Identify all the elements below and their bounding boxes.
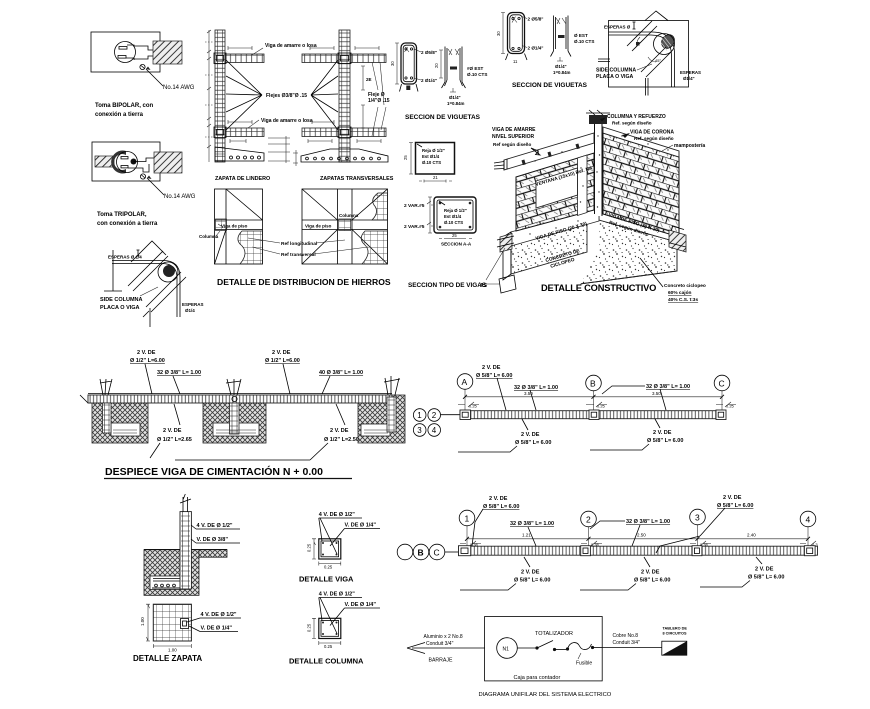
detalle constructivo: left wall bricks + window xyxy=(516,153,594,231)
svg-text:40% C.S. t:3s: 40% C.S. t:3s xyxy=(668,297,698,303)
svg-text:1.00: 1.00 xyxy=(168,648,177,653)
svg-text:TOTALIZADOR: TOTALIZADOR xyxy=(535,631,573,637)
svg-text:1=0.84m: 1=0.84m xyxy=(553,70,571,75)
svg-text:Viga de amarre o losa: Viga de amarre o losa xyxy=(261,118,313,124)
svg-text:0.25: 0.25 xyxy=(726,404,735,409)
svg-text:SECCION TIPO DE VIGAS: SECCION TIPO DE VIGAS xyxy=(408,282,487,289)
svg-text:Caja para contador: Caja para contador xyxy=(514,675,561,681)
svg-text:No.14 AWG: No.14 AWG xyxy=(164,194,196,200)
outlet bipolar detail xyxy=(91,32,195,118)
svg-text:Toma BIPOLAR, con: Toma BIPOLAR, con xyxy=(95,103,154,109)
svg-text:1.00: 1.00 xyxy=(140,617,145,626)
svg-text:No.14 AWG: No.14 AWG xyxy=(163,85,195,91)
svg-text:V. DE Ø 3/8": V. DE Ø 3/8" xyxy=(197,537,229,543)
svg-text:mampostería: mampostería xyxy=(674,143,705,149)
svg-text:30: 30 xyxy=(496,31,501,36)
svg-text:Ø 5/8" L= 6.00: Ø 5/8" L= 6.00 xyxy=(476,373,512,379)
wire to tablero xyxy=(602,633,662,648)
svg-text:SIDE COLUMNA: SIDE COLUMNA xyxy=(100,297,143,303)
svg-text:BARRAJE: BARRAJE xyxy=(429,658,453,664)
svg-text:Ø.10 CTS: Ø.10 CTS xyxy=(574,39,594,44)
svg-text:Columna: Columna xyxy=(339,213,359,218)
svg-text:1/4"Ø .15: 1/4"Ø .15 xyxy=(368,98,390,104)
svg-text:32 Ø 3/8" L= 1.00: 32 Ø 3/8" L= 1.00 xyxy=(157,370,201,376)
meter N1 xyxy=(497,638,518,659)
svg-text:40 Ø 3/8" L= 1.00: 40 Ø 3/8" L= 1.00 xyxy=(319,370,363,376)
viga de corona strip xyxy=(603,127,679,157)
svg-text:Conduit 3/4": Conduit 3/4" xyxy=(613,640,641,646)
svg-text:DETALLE CONSTRUCTIVO: DETALLE CONSTRUCTIVO xyxy=(541,283,656,293)
svg-text:Ø 5/8" L= 6.00: Ø 5/8" L= 6.00 xyxy=(647,438,683,444)
svg-text:PLACA O VIGA: PLACA O VIGA xyxy=(100,305,140,311)
svg-text:Toma TRIPOLAR,: Toma TRIPOLAR, xyxy=(97,212,147,218)
svg-text:2 VAR.#5: 2 VAR.#5 xyxy=(404,224,425,230)
svg-text:Columna: Columna xyxy=(199,234,219,239)
svg-text:ESPERAS: ESPERAS xyxy=(680,70,701,75)
svg-text:DETALLE VIGA: DETALLE VIGA xyxy=(299,575,354,584)
svg-text:2 V. DE: 2 V. DE xyxy=(482,365,501,371)
svg-text:1: 1 xyxy=(465,513,470,523)
despiece viga: right pedestal xyxy=(361,376,400,436)
right dims xyxy=(361,66,365,128)
svg-text:2 V. DE: 2 V. DE xyxy=(521,432,540,438)
svg-text:con conexión a tierra: con conexión a tierra xyxy=(97,221,158,227)
despiece viga: labels xyxy=(130,350,363,460)
svg-text:2 V. DE: 2 V. DE xyxy=(137,350,156,356)
footing xyxy=(215,147,264,161)
bottom beam both sides xyxy=(302,128,339,137)
svg-text:Concreto ciclopeo: Concreto ciclopeo xyxy=(664,283,706,289)
svg-text:2 V. DE: 2 V. DE xyxy=(653,430,672,436)
svg-text:Cobre No.8: Cobre No.8 xyxy=(613,633,639,639)
svg-text:2: 2 xyxy=(586,514,591,524)
despiece viga: circled numbers 1-4 xyxy=(413,409,460,437)
svg-text:1: 1 xyxy=(417,411,422,420)
svg-text:SECCION DE VIGUETAS: SECCION DE VIGUETAS xyxy=(405,114,481,121)
svg-text:0.25: 0.25 xyxy=(324,565,333,570)
svg-text:Ø1/4: Ø1/4 xyxy=(185,308,195,313)
svg-text:DETALLE DE DISTRIBUCION DE HIE: DETALLE DE DISTRIBUCION DE HIERROS xyxy=(217,277,391,287)
wire xyxy=(555,649,567,651)
svg-text:Fusible: Fusible xyxy=(576,661,592,667)
svg-text:2 V. DE: 2 V. DE xyxy=(723,495,742,501)
svg-text:ZAPATAS TRANSVERSALES: ZAPATAS TRANSVERSALES xyxy=(320,176,394,182)
svg-text:Ref transversal: Ref transversal xyxy=(281,252,316,258)
open stirrup section xyxy=(445,47,462,83)
svg-text:30: 30 xyxy=(390,61,395,66)
detalle constructivo: right end stub xyxy=(669,226,686,252)
svg-text:VIGA DE CORONA: VIGA DE CORONA xyxy=(630,130,674,136)
outlet tripolar detail xyxy=(92,142,196,227)
despiece viga: pedestal 2 xyxy=(213,379,259,436)
svg-text:0.25: 0.25 xyxy=(597,404,606,409)
svg-text:B: B xyxy=(418,548,424,558)
svg-text:11: 11 xyxy=(513,59,518,64)
open stirrup xyxy=(554,16,569,52)
svg-text:V. DE Ø 1/4": V. DE Ø 1/4" xyxy=(201,626,233,632)
fan lines + middle labels xyxy=(226,43,338,130)
top beam both sides xyxy=(302,54,339,63)
junction detail: zapatas transversales xyxy=(293,30,394,182)
svg-text:VIGA DE AMARRE: VIGA DE AMARRE xyxy=(492,127,536,133)
svg-text:SECCION DE VIGUETAS: SECCION DE VIGUETAS xyxy=(512,82,588,89)
beam plan A-B-C xyxy=(457,365,736,452)
fuse fusible xyxy=(566,643,594,667)
despiece viga de cimentacion: soil blocks xyxy=(80,395,405,443)
svg-text:ESPERAS Ø: ESPERAS Ø xyxy=(604,25,631,30)
svg-text:2 V. DE: 2 V. DE xyxy=(272,350,291,356)
svg-text:Ref longitudinal: Ref longitudinal xyxy=(281,241,317,247)
svg-text:20: 20 xyxy=(434,63,439,68)
svg-text:Flejes Ø3/8"Ø .15: Flejes Ø3/8"Ø .15 xyxy=(266,93,307,99)
svg-text:Ø.10 CTS: Ø.10 CTS xyxy=(422,160,441,165)
tablero de 8 circuitos panel xyxy=(662,627,688,656)
detalle constructivo: viga de amarre beam xyxy=(494,133,594,170)
svg-text:4 V. DE Ø 1/2": 4 V. DE Ø 1/2" xyxy=(201,612,237,618)
svg-text:Ø 1/2" L=6.00: Ø 1/2" L=6.00 xyxy=(130,358,165,364)
detalle zapata: plan grid xyxy=(133,604,241,663)
viguetas section group 1 xyxy=(390,43,487,121)
svg-text:conexión a tierra: conexión a tierra xyxy=(95,112,144,118)
svg-text:Ø 5/8" L= 6.00: Ø 5/8" L= 6.00 xyxy=(717,503,753,509)
svg-text:PLACA O VIGA: PLACA O VIGA xyxy=(596,74,634,80)
svg-text:Ref. según diseño: Ref. según diseño xyxy=(612,121,652,126)
svg-text:ESPERAS: ESPERAS xyxy=(182,302,204,307)
beam section square 2 (seccion A-A) xyxy=(404,197,476,247)
svg-text:Est Ø1/4: Est Ø1/4 xyxy=(422,154,440,159)
svg-text:1.21: 1.21 xyxy=(522,533,531,538)
detalle constructivo: labels xyxy=(480,114,706,303)
svg-text:60% cajón: 60% cajón xyxy=(668,290,692,296)
svg-text:32 Ø 3/8" L= 1.00: 32 Ø 3/8" L= 1.00 xyxy=(626,519,670,525)
detalle columna xyxy=(289,592,380,666)
svg-text:0.25: 0.25 xyxy=(307,543,312,552)
svg-text:V. DE Ø 1/4": V. DE Ø 1/4" xyxy=(345,523,377,529)
svg-text:C: C xyxy=(719,378,725,388)
svg-text:Ø.10 CTS: Ø.10 CTS xyxy=(444,220,463,225)
svg-text:Ø.10 CTS: Ø.10 CTS xyxy=(467,72,487,77)
svg-text:Ref según diseño: Ref según diseño xyxy=(493,142,531,147)
corner rebar detail left (side columna placa o viga) xyxy=(100,241,204,327)
svg-text:0.25: 0.25 xyxy=(469,404,478,409)
svg-text:A: A xyxy=(462,377,468,387)
junction detail: zapata de lindero xyxy=(205,30,290,182)
detalle constructivo: left footing ciclopeo face xyxy=(499,221,599,293)
svg-text:Ø 5/8" L= 6.00: Ø 5/8" L= 6.00 xyxy=(483,504,519,510)
svg-text:2 V. DE: 2 V. DE xyxy=(521,570,540,576)
svg-text:3: 3 xyxy=(695,512,700,522)
svg-text:2 V. DE: 2 V. DE xyxy=(489,496,508,502)
svg-text:Viga de amarre o losa: Viga de amarre o losa xyxy=(265,43,317,49)
detalle constructivo: small left stub xyxy=(497,234,514,253)
detalle constructivo: right wall bricks xyxy=(603,127,679,237)
svg-text:B: B xyxy=(590,378,596,388)
svg-text:Reja Ø 1/2": Reja Ø 1/2" xyxy=(444,208,467,213)
svg-text:2 V. DE: 2 V. DE xyxy=(330,428,349,434)
svg-text:Ref. según diseño: Ref. según diseño xyxy=(634,136,674,141)
detalle constructivo: corner column xyxy=(586,110,610,216)
switch totalizador xyxy=(535,641,556,652)
svg-text:Ø1/4": Ø1/4" xyxy=(555,64,567,69)
svg-text:Ø1/4": Ø1/4" xyxy=(683,76,695,81)
bottom beam xyxy=(225,128,264,137)
svg-text:32 Ø 3/8" L= 1.00: 32 Ø 3/8" L= 1.00 xyxy=(646,384,690,390)
svg-text:2 V. DE: 2 V. DE xyxy=(163,428,182,434)
svg-text:Ø 1/2" L=6.00: Ø 1/2" L=6.00 xyxy=(265,358,300,364)
svg-text:Ø 5/8" L= 6.00: Ø 5/8" L= 6.00 xyxy=(515,440,551,446)
detalle constructivo: right footing face xyxy=(580,220,677,284)
svg-text:3: 3 xyxy=(417,426,422,435)
viguetas section group 2 xyxy=(496,13,594,90)
svg-text:4 V. DE Ø 1/2": 4 V. DE Ø 1/2" xyxy=(197,523,233,529)
despiece viga: beam strip xyxy=(88,394,392,403)
svg-text:2 Ø1/4": 2 Ø1/4" xyxy=(528,46,544,51)
svg-text:Viga de piso: Viga de piso xyxy=(305,224,332,229)
svg-text:45°: 45° xyxy=(655,58,661,63)
rebar distribution plan: zapata de lindero xyxy=(199,189,263,264)
beam section square 1 xyxy=(403,143,455,183)
svg-text:2: 2 xyxy=(432,411,437,420)
electrical single-line diagram: caja para contador box xyxy=(485,617,603,682)
svg-text:2E: 2E xyxy=(366,77,372,82)
svg-text:0.25: 0.25 xyxy=(307,623,312,632)
rebar distribution plan: zapatas transversales xyxy=(302,189,388,264)
top beam xyxy=(225,54,264,63)
svg-text:4: 4 xyxy=(806,514,811,524)
svg-text:Viga de piso: Viga de piso xyxy=(221,224,248,229)
svg-text:Ø 5/8" L= 6.00: Ø 5/8" L= 6.00 xyxy=(748,575,784,581)
svg-text:32 Ø 3/8" L= 1.00: 32 Ø 3/8" L= 1.00 xyxy=(510,521,554,527)
svg-text:Ø 1/2" L=2.65: Ø 1/2" L=2.65 xyxy=(157,437,192,443)
svg-text:4 V. DE Ø 1/2": 4 V. DE Ø 1/2" xyxy=(319,592,355,598)
svg-text:4: 4 xyxy=(432,426,437,435)
detalle zapata: section xyxy=(144,494,240,595)
svg-text:DESPIECE VIGA DE CIMENTACIÓN N: DESPIECE VIGA DE CIMENTACIÓN N + 0.00 xyxy=(105,465,323,478)
svg-text:21: 21 xyxy=(433,175,438,180)
svg-text:N1: N1 xyxy=(503,647,510,653)
detalle constructivo: right viga de piso band xyxy=(599,206,677,242)
svg-text:DETALLE ZAPATA: DETALLE ZAPATA xyxy=(133,654,202,663)
svg-text:Ø 5/8" L= 6.00: Ø 5/8" L= 6.00 xyxy=(514,578,550,584)
svg-text:1=0.84m: 1=0.84m xyxy=(447,101,465,106)
svg-text:SIDE COLUMNA: SIDE COLUMNA xyxy=(596,68,636,74)
svg-text:2 Ø5/8": 2 Ø5/8" xyxy=(421,50,437,55)
svg-text:25: 25 xyxy=(452,233,457,238)
svg-text:2 V. DE: 2 V. DE xyxy=(755,567,774,573)
beam plan 1-2-3-4 xyxy=(397,495,818,590)
footing wide xyxy=(301,149,388,162)
svg-text:25: 25 xyxy=(403,155,408,160)
svg-text:Ø 1/2" L=2.50: Ø 1/2" L=2.50 xyxy=(324,437,359,443)
despiece viga: pedestal 1 xyxy=(100,379,140,436)
svg-text:COLUMNA Y REFUERZO: COLUMNA Y REFUERZO xyxy=(607,114,666,120)
svg-text:NIVEL SUPERIOR: NIVEL SUPERIOR xyxy=(492,134,535,140)
svg-text:DIAGRAMA UNIFILAR DEL SISTEMA: DIAGRAMA UNIFILAR DEL SISTEMA ELECTRICO xyxy=(479,692,612,698)
svg-text:Reja Ø 1/2": Reja Ø 1/2" xyxy=(422,148,445,153)
svg-text:V. DE Ø 1/4": V. DE Ø 1/4" xyxy=(345,602,377,608)
feeder wire + arrow to barraje xyxy=(407,634,485,664)
svg-text:#Ø EST: #Ø EST xyxy=(467,66,484,71)
svg-text:3.50: 3.50 xyxy=(652,391,661,396)
svg-text:SECCION A-A: SECCION A-A xyxy=(441,242,472,247)
detalle viga xyxy=(299,512,380,584)
svg-text:0.25: 0.25 xyxy=(324,644,333,649)
svg-text:TABLERO DE: TABLERO DE xyxy=(663,627,688,631)
svg-text:2.40: 2.40 xyxy=(747,533,756,538)
svg-text:2 VAR.#5: 2 VAR.#5 xyxy=(404,203,425,209)
svg-text:ZAPATA DE LINDERO: ZAPATA DE LINDERO xyxy=(215,176,270,182)
svg-text:Ø 5/8" L= 6.00: Ø 5/8" L= 6.00 xyxy=(634,578,670,584)
svg-text:Conduit 3/4": Conduit 3/4" xyxy=(426,641,454,647)
svg-text:Ø1/4": Ø1/4" xyxy=(449,95,461,100)
svg-text:2 V. DE: 2 V. DE xyxy=(641,570,660,576)
wire xyxy=(517,647,536,649)
svg-text:C: C xyxy=(434,548,440,558)
ref labels between plans xyxy=(248,238,368,258)
svg-text:DETALLE COLUMNA: DETALLE COLUMNA xyxy=(289,657,364,666)
svg-text:8 CIRCUITOS: 8 CIRCUITOS xyxy=(663,632,687,636)
svg-text:32 Ø 3/8" L= 1.00: 32 Ø 3/8" L= 1.00 xyxy=(514,385,558,391)
svg-text:Est Ø1/4: Est Ø1/4 xyxy=(444,214,462,219)
svg-text:4 V. DE Ø 1/2": 4 V. DE Ø 1/2" xyxy=(319,512,355,518)
svg-text:2.50: 2.50 xyxy=(637,533,646,538)
detalle constructivo: left viga de piso band xyxy=(503,207,599,251)
svg-text:2 Ø1/4": 2 Ø1/4" xyxy=(421,78,437,83)
svg-text:Aluminio x 2 No.8: Aluminio x 2 No.8 xyxy=(424,634,463,640)
corner rebar detail top-right xyxy=(596,11,701,96)
wire to box edge xyxy=(593,647,603,649)
svg-text:Ø EST: Ø EST xyxy=(574,33,588,38)
svg-text:2 Ø5/8": 2 Ø5/8" xyxy=(528,17,544,22)
